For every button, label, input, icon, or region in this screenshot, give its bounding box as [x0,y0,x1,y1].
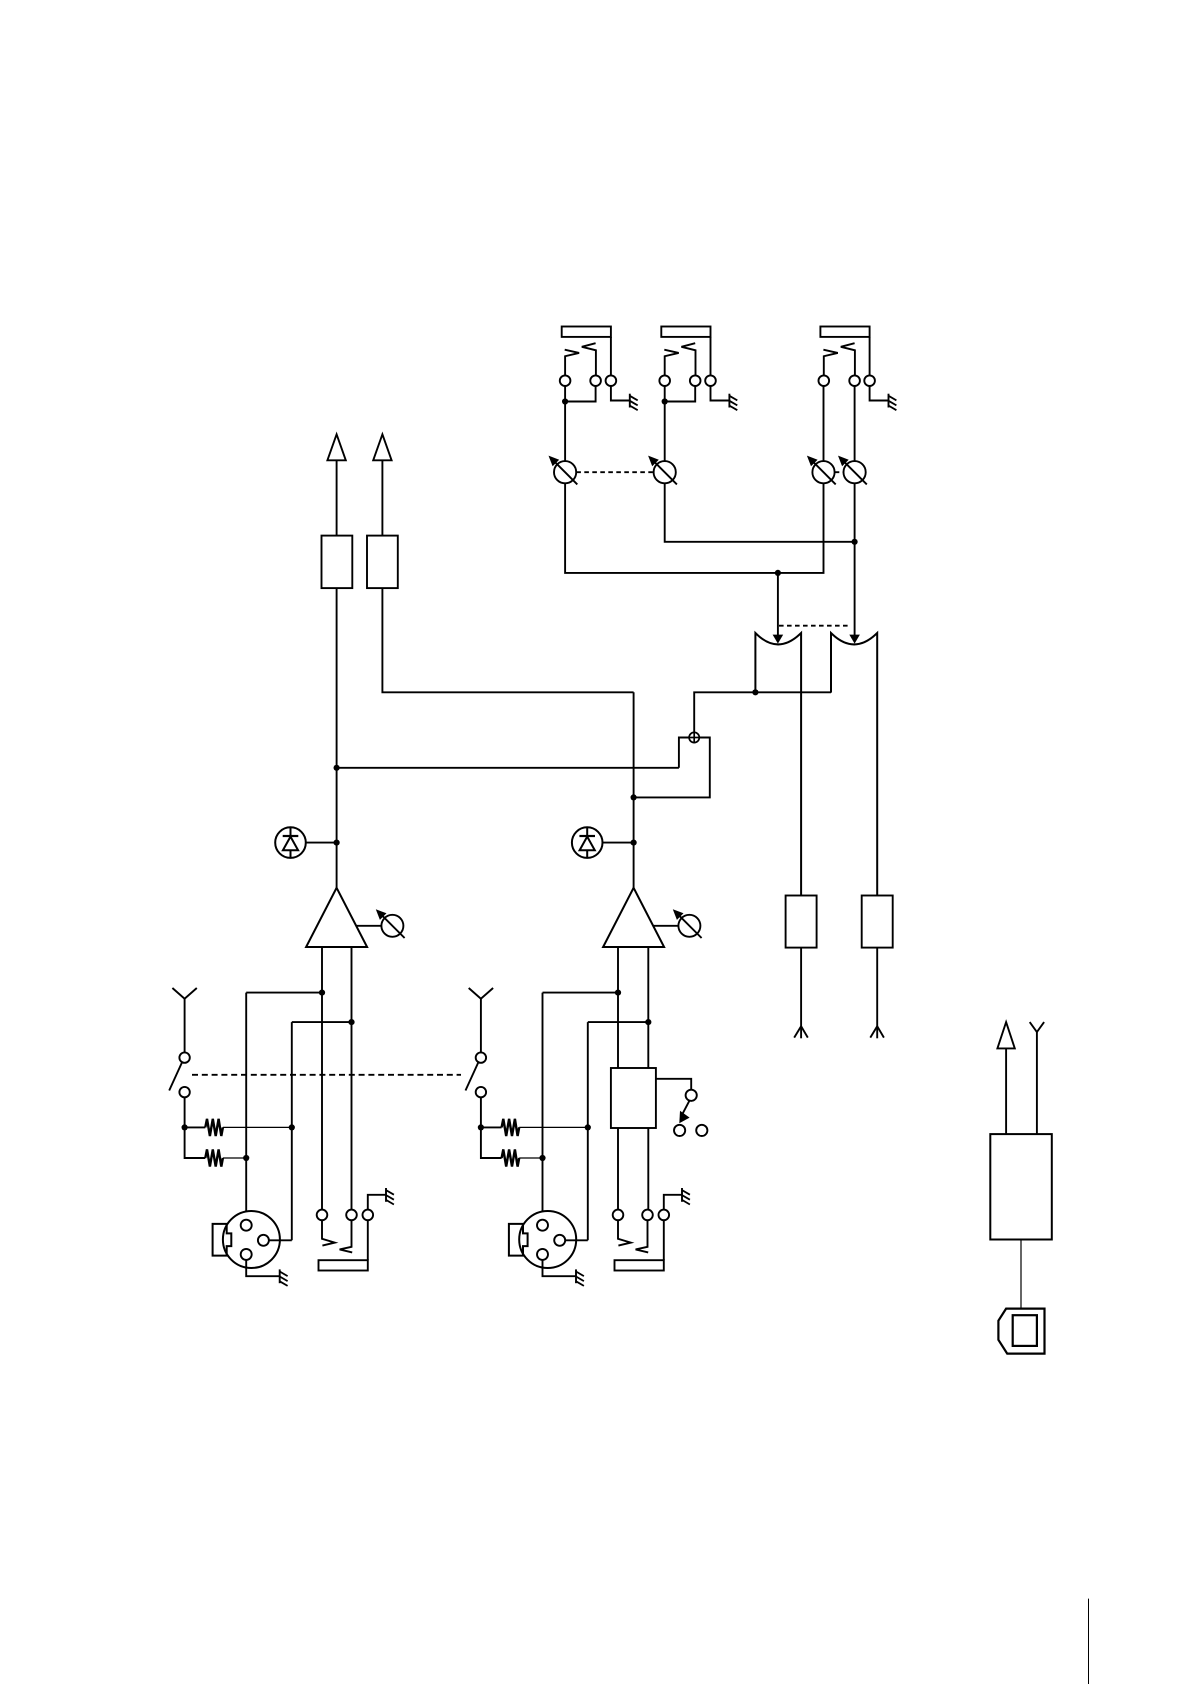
jack body (sleeve bar) [319,1260,368,1270]
jack ring spring contact [636,1220,649,1252]
wire down to resistor R4 [481,1127,502,1158]
jack ring spring contact [681,343,695,375]
wire sleeve terminal to ground [870,386,889,401]
pot RV3 (PHONES L) [807,456,836,485]
wire sleeve terminal to ground [368,1195,386,1210]
switch SW3 common [686,1090,697,1101]
wire tip down [664,386,666,402]
wire arrow A2 to block [381,460,383,535]
wire pad to jack ring [647,1128,649,1210]
wire tuner to connector [1020,1240,1022,1309]
junction CH1 bus LED [334,840,340,846]
junction input+ to XLR pin2 CH2 [615,990,621,996]
wire R3 to pin3 net [519,1126,588,1128]
wire block Z2 down and right to CH2 bus [382,588,633,692]
wire pad to jack tip [617,1128,619,1210]
wire XLR1 pin3 out [269,1239,292,1241]
block Z2 (output amp) [367,536,398,589]
wire input+ to XLR2 pin2 net [543,992,619,994]
wire sleeve to terminal [869,337,871,376]
wire RV4 down to earpiece R [854,483,856,635]
op-amp U1 (CH1 mic amp) [306,888,367,947]
junction R2 pin2 net [243,1155,249,1161]
junction SW1 resistor node [182,1124,188,1130]
wire tip-ring tie [565,386,596,402]
arrowhead into earpiece R [849,635,860,644]
block Z1 (output amp) [322,536,353,589]
terminal circle tip [659,375,670,386]
wire tip-ring tie [665,386,696,402]
junction sum output to CH2 bus [631,794,637,800]
terminal circle tip [819,375,830,386]
wire U1 input- vertical [351,947,353,1210]
switch SW2 lever [466,1063,479,1091]
jack ring spring contact [582,343,596,375]
wire headphone common bus [694,692,831,732]
switch SW1 contact a [179,1052,189,1062]
arrowhead into earpiece L [773,635,784,644]
op-amp U2 (CH2 mic amp) [603,888,664,947]
wire block Z1 down CH1 bus [336,588,338,888]
wire down to resistor R2 [185,1127,206,1158]
XLR connector shell [223,1211,280,1268]
junction R1 pin3 net [289,1124,295,1130]
gang dashed link earpiece arrows [779,625,851,627]
jack tip spring contact [618,1220,631,1245]
wire input- to XLR pin3 net [292,1021,352,1023]
resistor R1 [205,1119,223,1136]
switch SW3 lever [682,1101,690,1116]
resistor R4 [502,1149,520,1166]
pot RV6 (CH2 gain) [673,909,702,938]
wire R2 to pin2 net [223,1157,246,1159]
switch SW3 contact b [696,1125,707,1136]
wire arrow A3 to tuner [1005,1048,1007,1134]
chassis ground [682,1188,690,1205]
wire antenna to tuner [1036,1032,1038,1134]
switch SW1 lever [169,1063,182,1091]
junction earpiece L common [752,689,758,695]
pot RV2 (PGM2 level) [648,456,677,485]
wire pot RV1 down and right to RV3 line [565,483,823,573]
wire sleeve to terminal [610,337,612,376]
wire pad switch link [656,1079,691,1090]
signal arrow A1 (PGM out 1) [327,434,345,460]
terminal circle tip [560,375,571,386]
wire jack3 tip to pot RV3 [823,386,825,461]
wire branch down to earpiece L [777,573,779,635]
page edge line [1088,1599,1090,1684]
wire tip down [564,386,566,402]
wire pot RV2 down and right to RV4 line [665,483,855,542]
gang dashed link RV1-RV2 [576,471,653,473]
jack ring spring contact [841,343,855,375]
connector crow-foot R [870,1026,884,1038]
junction input- to XLR pin3 CH2 [645,1019,651,1025]
wire XLR1 pin2 net vertical [245,993,247,1220]
gang dashed link SW1-SW2 [192,1074,461,1076]
junction SW2 resistor node [478,1124,484,1130]
chassis ground [729,394,737,411]
junction input+ to XLR pin2 [319,990,325,996]
XLR pin 3 [554,1235,565,1246]
jack body (sleeve bar) [661,327,710,337]
terminal circle sleeve [606,375,617,386]
signal arrow A3 (RF out) [997,1022,1014,1048]
antenna RF in [1030,1022,1044,1032]
chassis ground [630,394,638,411]
wire sum input stub [679,738,689,768]
jack tip spring contact [322,1220,335,1245]
junction R3 pin3 net [585,1124,591,1130]
wire sum output [634,738,710,798]
wire to resistor R3 [481,1126,502,1128]
XLR pin 2 [241,1220,252,1231]
switch SW3 contact a [674,1125,685,1136]
jack tip spring contact [664,350,678,376]
terminal circle ring [590,375,601,386]
connector CN3 insert [1013,1315,1037,1346]
jack tip spring contact [565,350,579,376]
wire LED D1 to bus [306,842,337,844]
wire sleeve to terminal [710,337,712,376]
terminal circle tip [317,1210,328,1221]
wire sleeve to body [367,1220,369,1260]
wire XLR1 pin3 net vertical [291,1022,293,1240]
block Z5 (phones amp R) [862,896,893,948]
junction [562,398,568,404]
chassis ground [889,394,897,411]
wire jack1 tie to pot RV1 [564,402,566,462]
wire LED D2 to bus [603,842,634,844]
XLR latch tab [509,1224,528,1256]
resistor R2 [205,1149,223,1166]
terminal circle sleeve [705,375,716,386]
wire SW1 down [184,1097,186,1127]
jack body (sleeve bar) [615,1260,664,1270]
jack body (sleeve bar) [562,327,611,337]
XLR latch tab [213,1224,232,1256]
wire XLR1 pin1 to ground [246,1260,280,1276]
terminal circle sleeve [864,375,875,386]
junction CH2 bus LED [631,840,637,846]
junction pot1 bus [775,570,781,576]
wire Z5 output [876,948,878,1027]
wire sleeve terminal to ground [664,1195,682,1210]
summing node S1 [689,732,699,742]
pot RV5 (CH1 gain) [376,909,405,938]
wire R1 to pin3 net [223,1126,292,1128]
jack ring spring contact [340,1220,353,1252]
terminal circle sleeve [363,1210,374,1221]
wire U2 gain pot link [653,925,678,927]
resistor R3 [502,1119,520,1136]
wire U2 input- upper vertical [647,947,649,1068]
switch SW1 contact b [179,1087,189,1097]
wire sleeve terminal to ground [611,386,630,401]
wire antenna stem [184,999,186,1053]
wire arrow A1 to block [336,460,338,535]
wire antenna stem CH2 [480,999,482,1053]
chassis ground XLR2 [576,1269,584,1286]
antenna (phantom) CH2 [469,988,493,999]
wire input- to XLR2 pin3 net [588,1021,649,1023]
chassis ground XLR1 [280,1269,288,1286]
LED D1 (peak indicator CH1) [275,827,306,858]
block Z3 (CH2 input pad) [611,1068,656,1128]
block Z4 (phones amp L) [786,896,817,948]
junction R4 pin2 net [539,1155,545,1161]
wire U1 input+ vertical [321,947,323,1210]
switch SW2 contact b [476,1087,486,1097]
XLR pin 2 [537,1220,548,1231]
wire XLR2 pin3 out [565,1239,588,1241]
pot RV1 (PGM1 level) [549,456,578,485]
terminal circle tip [613,1210,624,1221]
terminal circle ring [690,375,701,386]
junction input- to XLR pin3 [348,1019,354,1025]
wire jack2 tie to pot RV2 [664,402,666,462]
antenna (phantom) CH1 [172,988,196,999]
wire to resistor R1 [185,1126,206,1128]
switch SW2 contact a [476,1052,486,1062]
junction [662,398,668,404]
earpiece L (headphone driver) [755,633,801,896]
wire Z4 output [800,948,802,1027]
wire U2 input+ upper vertical [617,947,619,1068]
wire sum input from CH1 bus [337,767,679,769]
wire XLR2 pin1 to ground [543,1260,577,1276]
XLR pin 1 [241,1249,252,1260]
wire input+ to XLR pin2 net [246,992,322,994]
XLR pin 3 [258,1235,269,1246]
XLR connector shell [519,1211,576,1268]
jack tip spring contact [823,350,837,376]
connector crow-foot L [794,1026,808,1038]
signal arrow A2 (PGM out 2) [373,434,391,460]
terminal circle ring [642,1210,653,1221]
junction CH1 bus to sum [334,765,340,771]
LED D2 (peak indicator CH2) [572,827,603,858]
wire jack3 ring to pot RV4 [854,386,856,461]
terminal circle sleeve [659,1210,670,1221]
switch SW3 lever arrowhead [679,1111,689,1123]
wire XLR2 pin2 net vertical [542,993,544,1220]
block Z6 (tuner unit) [990,1134,1052,1239]
pot RV4 (PHONES R) [838,456,867,485]
terminal circle ring [849,375,860,386]
connector CN3 (remote) shell [998,1309,1044,1354]
wire U1 gain pot link [356,925,381,927]
wire SW2 down [480,1097,482,1127]
jack body (sleeve bar) [820,327,869,337]
wire XLR2 pin3 net vertical [587,1022,589,1240]
junction pot2 bus [852,539,858,545]
earpiece R (headphone driver) [831,633,877,896]
wire CH2 bus vertical [633,692,635,888]
wire R4 to pin2 net [519,1157,542,1159]
wire sleeve terminal to ground [711,386,730,401]
gang dashed link RV3-RV4 [835,471,844,473]
chassis ground [386,1188,394,1205]
XLR pin 1 [537,1249,548,1260]
wire sleeve to body [663,1220,665,1260]
terminal circle ring [346,1210,357,1221]
